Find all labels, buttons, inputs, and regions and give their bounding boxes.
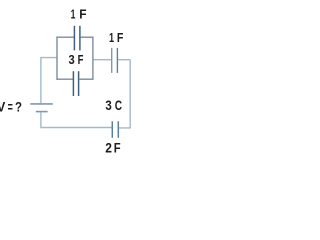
label 3 F [69,52,84,67]
capacitor C2 3F left plate [72,71,74,96]
svg-text:F: F [117,30,124,45]
capacitor C1 1F top right plate [79,26,81,51]
svg-text:1: 1 [71,7,76,22]
label 1 F top [71,7,87,22]
svg-text:C: C [115,97,122,113]
svg-text:F: F [78,52,84,67]
wire battery to bottom-left corner and bottom run [41,112,112,127]
label 1 F right [109,30,123,45]
svg-text:V: V [0,99,6,115]
wire top edge left segment [56,36,74,38]
svg-text:F: F [79,7,86,22]
capacitor C3 1F right plate [116,48,118,73]
wire bottom edge right segment [79,78,93,80]
battery V1 short plate [36,111,48,113]
parallel box left edge [56,37,58,80]
svg-text:1: 1 [109,30,114,45]
capacitor C1 1F top left plate [73,26,75,51]
parallel box right edge [92,37,94,80]
capacitor C4 2F right plate [117,121,119,138]
label 3 C charge [105,97,122,113]
label V = ? [0,99,22,115]
label 2 F [105,140,121,156]
wire top edge right segment [80,36,93,38]
capacitor C4 2F left plate [111,121,113,138]
svg-text:3: 3 [105,97,112,113]
wire left riser and stub to parallel box [41,58,57,103]
svg-text:?: ? [15,99,22,115]
wire left lead of C3 from box [93,59,111,61]
battery V1 long plate [30,103,53,105]
wire bottom-right corner and right riser [119,60,130,128]
svg-text:3: 3 [69,52,75,67]
svg-text:2: 2 [105,140,112,156]
svg-text:F: F [114,140,121,156]
capacitor C2 3F right plate [78,71,80,96]
svg-text:=: = [8,99,13,115]
wire right lead of C3 [118,59,130,61]
wire bottom edge left segment [56,78,73,80]
capacitor C3 1F left plate [111,48,113,73]
